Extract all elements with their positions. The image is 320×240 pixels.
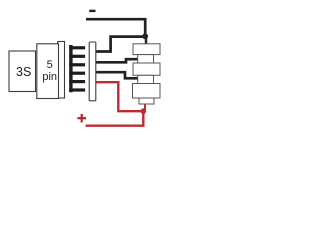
joint J1 between cells — [138, 55, 154, 63]
pin tooth 2 — [69, 55, 85, 58]
wire red positive lead from node B+ to plus terminal — [86, 110, 144, 126]
wire red stub joint J3 to node B+ — [144, 104, 146, 110]
box 5-pin connector — [37, 44, 59, 99]
pin tooth 4 — [69, 72, 85, 75]
wire stub node B- to cell1 — [145, 36, 147, 45]
cell C3 — [133, 84, 161, 99]
wire balance pin3 from connector to joint J2 — [96, 72, 139, 78]
pin tooth 5 — [69, 80, 85, 83]
pin comb spine — [69, 45, 72, 92]
svg-text:pin: pin — [42, 71, 57, 83]
connector housing — [89, 42, 96, 101]
wire negative lead from minus label to node B- — [86, 19, 145, 36]
node B- junction dot — [142, 33, 148, 39]
wire balance pin2 from connector to joint J1 — [96, 59, 139, 62]
cell C2 — [133, 63, 160, 75]
pin tooth 3 — [69, 63, 85, 66]
svg-text:5: 5 — [47, 59, 53, 71]
wire red balance pin4 from connector to node B+ — [96, 82, 142, 111]
pin tooth 1 — [69, 46, 85, 49]
label plus terminal — [77, 114, 86, 123]
label minus terminal — [89, 10, 95, 12]
node B+ junction dot — [141, 108, 147, 114]
joint J2 between cells — [138, 75, 154, 83]
connector plug body — [58, 42, 65, 99]
joint J3 bottom terminal — [139, 98, 154, 104]
svg-text:3S: 3S — [16, 65, 31, 79]
wire balance pin1 from connector to node B- — [96, 37, 145, 52]
box battery 3S — [9, 51, 36, 92]
pin tooth 6 — [69, 88, 85, 91]
cell C1 — [133, 44, 160, 55]
